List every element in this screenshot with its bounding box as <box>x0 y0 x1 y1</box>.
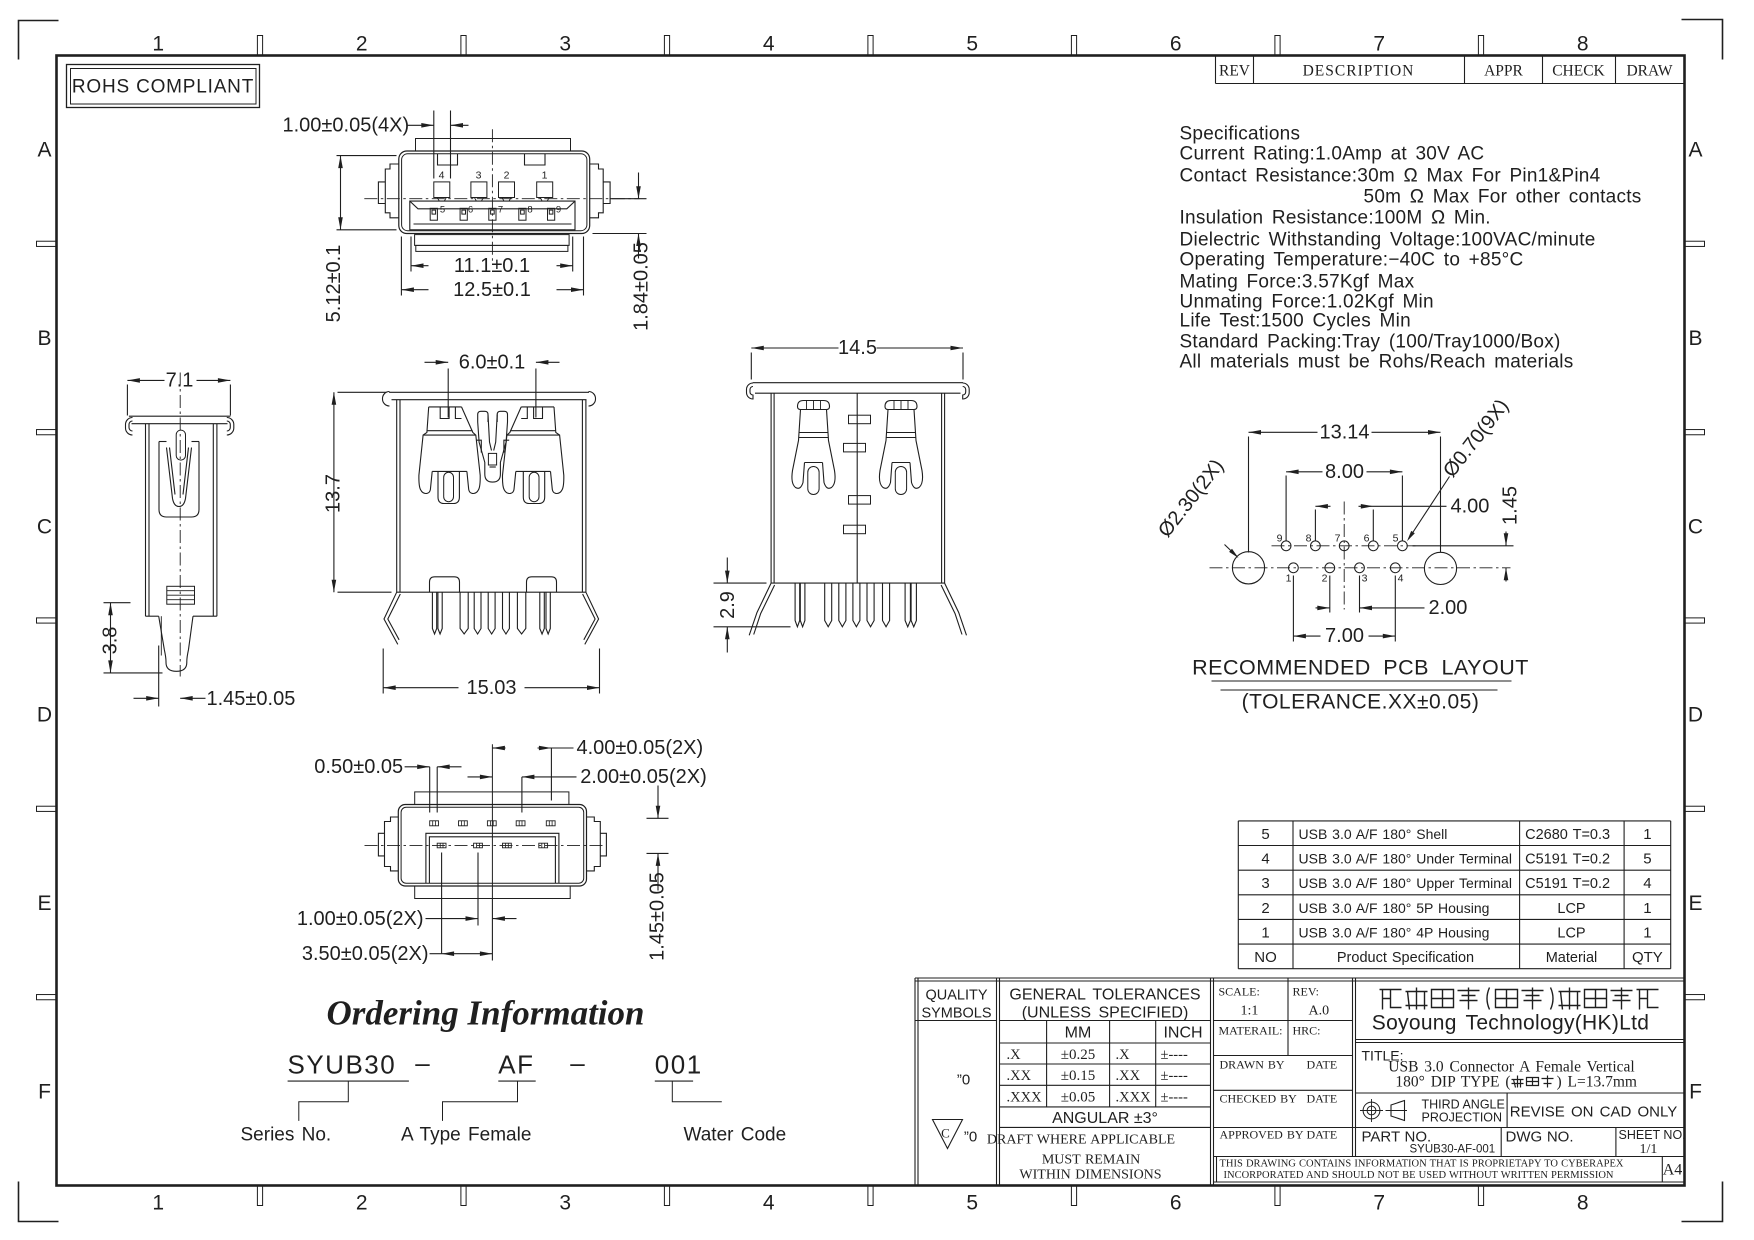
svg-text:6: 6 <box>1170 1192 1182 1215</box>
dimension 1.45±0.05 bottom view <box>647 817 669 819</box>
svg-text:Specifications: Specifications <box>1180 124 1301 145</box>
svg-text:1.45: 1.45 <box>1500 486 1522 525</box>
svg-text:USB 3.0 A/F 180° Upper Termina: USB 3.0 A/F 180° Upper Terminal <box>1299 875 1512 891</box>
svg-text:”0: ”0 <box>964 1129 977 1146</box>
svg-text:4: 4 <box>1398 573 1404 585</box>
dimension 5.12±0.1 <box>337 155 397 157</box>
dimension 3.8 <box>104 602 131 604</box>
svg-text:±0.25: ±0.25 <box>1061 1047 1095 1063</box>
svg-text:8: 8 <box>1306 533 1312 545</box>
svg-text:3: 3 <box>1261 875 1269 892</box>
svg-text:7: 7 <box>1373 1192 1385 1215</box>
svg-text:1:1: 1:1 <box>1241 1004 1259 1019</box>
svg-text:LCP: LCP <box>1557 901 1585 917</box>
top view horizontal centerline <box>364 198 639 200</box>
back view right clamp <box>879 401 922 489</box>
svg-text:A: A <box>1688 139 1702 162</box>
scale rev cells <box>1287 978 1289 1056</box>
bottom view horizontal centerline <box>365 844 605 846</box>
svg-text:C5191 T=0.2: C5191 T=0.2 <box>1525 852 1610 868</box>
svg-text:6: 6 <box>1364 533 1370 545</box>
svg-text:8: 8 <box>1577 33 1589 56</box>
projection symbol cone <box>1391 1101 1405 1121</box>
svg-text:.X: .X <box>1116 1047 1131 1063</box>
svg-text:1.00±0.05(2X): 1.00±0.05(2X) <box>297 908 424 930</box>
svg-text:THIRD ANGLE: THIRD ANGLE <box>1422 1098 1505 1112</box>
svg-text:8: 8 <box>1577 1192 1589 1215</box>
svg-text:CHECK: CHECK <box>1552 63 1605 80</box>
back view body <box>770 393 772 583</box>
svg-text:1: 1 <box>1286 573 1292 585</box>
svg-text:7: 7 <box>1373 33 1385 56</box>
svg-text:C: C <box>1688 515 1703 538</box>
dimension 8.00 <box>1285 476 1287 541</box>
svg-text:E: E <box>1688 892 1702 915</box>
svg-text:6: 6 <box>1170 33 1182 56</box>
svg-text:QTY: QTY <box>1632 949 1663 966</box>
dimension 6.0±0.1 <box>425 361 449 363</box>
svg-text:Soyoung Technology(HK)Ltd: Soyoung Technology(HK)Ltd <box>1372 1012 1649 1035</box>
svg-text:1.45±0.05: 1.45±0.05 <box>647 872 669 961</box>
quality symbols cell <box>915 1020 997 1022</box>
bottom view center pads <box>437 843 446 848</box>
svg-text:PROJECTION: PROJECTION <box>1422 1111 1503 1125</box>
svg-text:DATE: DATE <box>1307 1128 1338 1142</box>
svg-text:±----: ±---- <box>1161 1047 1188 1063</box>
svg-text:All materials must be Rohs: All materials must be Rohs/Reach materia… <box>1180 352 1574 373</box>
svg-text:Dielectric Withstanding Volt: Dielectric Withstanding Voltage:100VAC/m… <box>1180 230 1596 251</box>
svg-text:SYUB30-AF-001: SYUB30-AF-001 <box>1410 1144 1496 1156</box>
front view bottom brackets <box>430 577 460 592</box>
svg-text:1: 1 <box>152 33 164 56</box>
dimension 1.45 pcb <box>1413 545 1514 547</box>
side view latch cutout <box>159 442 199 518</box>
tolerance table grid <box>1000 1020 1211 1022</box>
svg-text:Mating Force:3.57Kgf Max: Mating Force:3.57Kgf Max <box>1180 272 1415 293</box>
dimension 7.00 pcb <box>1292 576 1294 642</box>
svg-text:11.1±0.1: 11.1±0.1 <box>454 255 530 277</box>
bottom view inner cavity <box>426 833 559 883</box>
svg-text:APPR: APPR <box>1484 63 1523 80</box>
svg-text:Material: Material <box>1546 950 1598 966</box>
svg-text:Unmating Force:1.02Kgf Min: Unmating Force:1.02Kgf Min <box>1180 292 1434 313</box>
dimension 1.45±0.05 side <box>158 646 160 707</box>
dimension 12.5±0.1 <box>400 237 402 296</box>
svg-text:2: 2 <box>504 170 510 182</box>
side view hatch plate <box>167 586 195 604</box>
svg-text:ROHS COMPLIANT: ROHS COMPLIANT <box>72 77 254 98</box>
sheet size A4 cell <box>1661 1157 1663 1183</box>
svg-text:0.50±0.05: 0.50±0.05 <box>314 756 403 778</box>
svg-text:001: 001 <box>655 1050 703 1080</box>
svg-text:8: 8 <box>527 205 532 216</box>
svg-text:.XXX: .XXX <box>1007 1090 1043 1106</box>
svg-text:9: 9 <box>1277 533 1283 545</box>
back view right mounting leg <box>941 583 966 635</box>
title cell <box>1356 1092 1685 1094</box>
projection symbol circle <box>1363 1102 1380 1119</box>
back view center seam <box>856 393 858 583</box>
svg-text:Standard Packing:Tray (100/T: Standard Packing:Tray (100/Tray1000/Box) <box>1180 332 1561 353</box>
svg-text:7.1: 7.1 <box>166 370 194 392</box>
svg-text:2.00: 2.00 <box>1429 597 1468 619</box>
svg-text:DATE: DATE <box>1307 1058 1338 1072</box>
svg-text:1.45±0.05: 1.45±0.05 <box>207 688 296 710</box>
svg-text:5.12±0.1: 5.12±0.1 <box>323 245 345 323</box>
svg-text:4: 4 <box>1261 851 1269 868</box>
ordering leader a type female <box>443 1081 518 1121</box>
svg-text:C2680 T=0.3: C2680 T=0.3 <box>1525 827 1610 843</box>
front view center latch <box>478 411 488 422</box>
bottom view upper pads <box>430 821 439 826</box>
svg-text:USB 3.0 A/F 180° 5P Housing: USB 3.0 A/F 180° 5P Housing <box>1299 900 1490 916</box>
svg-text:REV: REV <box>1219 63 1251 80</box>
svg-text:Series No.: Series No. <box>241 1125 332 1146</box>
svg-text:4: 4 <box>763 33 775 56</box>
dimension 7.1 <box>126 385 128 416</box>
ordering leader series no <box>299 1081 349 1121</box>
top view lower cavity <box>410 201 575 230</box>
svg-text:DATE: DATE <box>1307 1092 1338 1106</box>
PCB layout mounting hole left Ø2.30 <box>1232 552 1264 584</box>
svg-text:2.9: 2.9 <box>717 591 739 619</box>
svg-text:3: 3 <box>476 170 482 182</box>
dimension 1.84±0.05 <box>610 198 647 200</box>
revision header table <box>1215 56 1217 84</box>
svg-text:SHEET NO.: SHEET NO. <box>1619 1128 1686 1142</box>
PCB layout centerlines <box>1210 567 1511 569</box>
ROHS COMPLIANT stamp box <box>67 65 260 108</box>
svg-text:DRAW: DRAW <box>1626 63 1672 80</box>
PCB layout pin holes 9-5 row <box>1281 541 1291 551</box>
svg-text:Life Test:1500 Cycles Min: Life Test:1500 Cycles Min <box>1180 311 1411 332</box>
svg-text:–: – <box>570 1048 585 1078</box>
svg-text:Insulation Resistance:100M Ω: Insulation Resistance:100M Ω Min. <box>1180 208 1491 229</box>
svg-text:9: 9 <box>556 205 561 216</box>
dimension 4.00±0.05(2X) <box>492 747 505 749</box>
svg-text:ANGULAR ±3°: ANGULAR ±3° <box>1052 1110 1158 1127</box>
svg-text:MUST REMAIN: MUST REMAIN <box>1042 1153 1140 1168</box>
svg-text:8.00: 8.00 <box>1325 461 1364 483</box>
svg-text:GENERAL TOLERANCES: GENERAL TOLERANCES <box>1009 987 1200 1004</box>
svg-text:Ø0.70(9X): Ø0.70(9X) <box>1439 395 1513 481</box>
third angle projection row <box>1506 1093 1508 1128</box>
svg-text:3.50±0.05(2X): 3.50±0.05(2X) <box>302 943 429 965</box>
svg-text:QUALITY: QUALITY <box>925 988 987 1004</box>
front view left mounting leg <box>384 592 400 644</box>
svg-text:±0.05: ±0.05 <box>1061 1090 1095 1106</box>
svg-text:A4: A4 <box>1663 1162 1683 1179</box>
side view body <box>145 424 147 617</box>
svg-text:MATERAIL:: MATERAIL: <box>1219 1024 1283 1038</box>
dimension 2.00 pcb <box>1329 576 1331 613</box>
bill of materials table <box>1237 821 1239 969</box>
svg-text:USB 3.0 A/F 180° 4P Housing: USB 3.0 A/F 180° 4P Housing <box>1299 924 1490 940</box>
side view flange <box>129 415 231 417</box>
svg-text:2: 2 <box>1322 573 1328 585</box>
svg-text:Operating Temperature:−40C t: Operating Temperature:−40C to +85°C <box>1180 250 1524 271</box>
svg-text:4.00±0.05(2X): 4.00±0.05(2X) <box>577 737 704 759</box>
svg-text:DRAWN BY: DRAWN BY <box>1220 1058 1285 1072</box>
dimension 15.03 <box>382 649 384 694</box>
svg-text:±----: ±---- <box>1161 1068 1188 1084</box>
top view inner top notches <box>438 154 458 165</box>
svg-text:±0.15: ±0.15 <box>1061 1068 1095 1084</box>
back view solder pins <box>795 583 800 627</box>
svg-text:USB 3.0 A/F 180° Under Termina: USB 3.0 A/F 180° Under Terminal <box>1299 851 1512 867</box>
svg-text:6.0±0.1: 6.0±0.1 <box>459 352 526 374</box>
svg-text:14.5: 14.5 <box>838 337 877 359</box>
proprietary note row <box>1214 1156 1685 1158</box>
svg-text:A: A <box>37 139 51 162</box>
svg-text:) L=13.7mm: ) L=13.7mm <box>1557 1074 1637 1091</box>
svg-text:1: 1 <box>1643 900 1651 917</box>
svg-text:7: 7 <box>498 205 503 216</box>
svg-text:MM: MM <box>1065 1025 1092 1042</box>
svg-text:Water Code: Water Code <box>684 1125 787 1146</box>
top view contact feet <box>437 198 439 202</box>
svg-text:7.00: 7.00 <box>1325 625 1364 647</box>
svg-text:(TOLERANCE.XX±0.05): (TOLERANCE.XX±0.05) <box>1242 691 1480 714</box>
svg-text:”0: ”0 <box>957 1072 970 1089</box>
svg-text:1.84±0.05: 1.84±0.05 <box>631 242 653 331</box>
svg-text:5: 5 <box>1393 533 1399 545</box>
svg-text:CHECKED BY: CHECKED BY <box>1220 1092 1298 1106</box>
top view right ear <box>590 164 604 218</box>
zone ticks top/bottom <box>257 36 262 56</box>
top view vertical centerline <box>491 129 493 263</box>
svg-text:2: 2 <box>356 1192 368 1215</box>
title block outer borders <box>915 977 1685 979</box>
part no row <box>1214 1127 1685 1129</box>
svg-text:3.8: 3.8 <box>100 627 122 655</box>
svg-text:5: 5 <box>1261 826 1269 843</box>
bottom view body outline <box>398 805 586 887</box>
side view centerline <box>179 373 181 677</box>
svg-text:D: D <box>1688 704 1703 727</box>
company name box <box>1356 1039 1685 1041</box>
PCB layout pin holes 1-4 row <box>1289 563 1299 573</box>
front view solder pins <box>432 592 436 634</box>
svg-text:1: 1 <box>1643 924 1651 941</box>
bottom view right ear <box>587 817 601 871</box>
back view flange <box>753 382 963 384</box>
svg-text:5: 5 <box>440 205 445 216</box>
svg-text:NO: NO <box>1254 949 1277 966</box>
top view shell outline <box>399 151 590 234</box>
svg-text:4: 4 <box>1643 875 1651 892</box>
front view flange <box>389 391 589 393</box>
svg-text:1.00±0.05(4X): 1.00±0.05(4X) <box>283 115 410 137</box>
top view left ear <box>385 164 399 218</box>
svg-text:3: 3 <box>559 1192 571 1215</box>
svg-text:±----: ±---- <box>1161 1090 1188 1106</box>
svg-text:.XX: .XX <box>1116 1068 1141 1084</box>
dimension 2.00±0.05(2X) <box>468 776 493 778</box>
zone ticks left/right <box>37 241 57 246</box>
top view contacts 1-4 <box>434 182 450 198</box>
svg-text:USB 3.0 A/F 180° Shell: USB 3.0 A/F 180° Shell <box>1299 826 1448 842</box>
svg-text:3: 3 <box>1362 573 1368 585</box>
svg-text:3: 3 <box>559 33 571 56</box>
svg-text:C: C <box>37 515 52 538</box>
svg-text:.X: .X <box>1007 1047 1022 1063</box>
svg-text:.XXX: .XXX <box>1116 1090 1152 1106</box>
svg-text:SYUB30: SYUB30 <box>288 1050 397 1080</box>
svg-text:A Type Female: A Type Female <box>401 1125 531 1146</box>
svg-text:5: 5 <box>1643 851 1651 868</box>
svg-text:1: 1 <box>1261 924 1269 941</box>
top view contacts 5-9 <box>430 208 437 220</box>
svg-text:5: 5 <box>966 33 978 56</box>
svg-text:REV:: REV: <box>1293 985 1319 999</box>
svg-text:15.03: 15.03 <box>466 677 516 699</box>
svg-text:Current Rating:1.0Amp at 30: Current Rating:1.0Amp at 30V AC <box>1180 144 1485 165</box>
svg-text:F: F <box>1689 1080 1702 1103</box>
dimension 11.1±0.1 <box>410 237 412 272</box>
side view latch slot <box>176 430 185 460</box>
svg-text:INCORPORATED AND SHOULD NOT BE: INCORPORATED AND SHOULD NOT BE USED WITH… <box>1224 1170 1614 1181</box>
bottom view bottom tab <box>415 886 571 899</box>
svg-text:C5191 T=0.2: C5191 T=0.2 <box>1525 876 1610 892</box>
svg-text:6: 6 <box>468 205 473 216</box>
dimension 14.5 <box>750 353 752 380</box>
svg-text:1: 1 <box>542 170 548 182</box>
svg-text:D: D <box>37 704 52 727</box>
svg-text:.XX: .XX <box>1007 1068 1032 1084</box>
svg-text:HRC:: HRC: <box>1293 1024 1321 1038</box>
svg-text:1: 1 <box>152 1192 164 1215</box>
company CJK name <box>1380 988 1659 1010</box>
svg-text:SCALE:: SCALE: <box>1219 985 1260 999</box>
svg-text:4: 4 <box>763 1192 775 1215</box>
svg-text:A.0: A.0 <box>1309 1004 1330 1019</box>
svg-text:F: F <box>38 1080 51 1103</box>
front view left clamp contact <box>419 407 432 494</box>
svg-text:WITHIN DIMENSIONS: WITHIN DIMENSIONS <box>1019 1168 1161 1183</box>
svg-text:Ordering Information: Ordering Information <box>327 994 645 1033</box>
svg-text:DWG NO.: DWG NO. <box>1506 1129 1574 1146</box>
bottom view top tab <box>415 792 569 805</box>
svg-text:13.7: 13.7 <box>323 474 345 513</box>
dimension 2.9 <box>714 582 767 584</box>
svg-text:APPROVED BY: APPROVED BY <box>1220 1128 1304 1142</box>
svg-text:1/1: 1/1 <box>1640 1142 1658 1157</box>
svg-text:5: 5 <box>966 1192 978 1215</box>
svg-text:B: B <box>37 327 51 350</box>
svg-text:2.00±0.05(2X): 2.00±0.05(2X) <box>580 766 707 788</box>
svg-text:13.14: 13.14 <box>1319 422 1369 444</box>
svg-text:SYMBOLS: SYMBOLS <box>921 1006 991 1022</box>
dimension 4.00 <box>1314 510 1316 541</box>
svg-text:1: 1 <box>1643 826 1651 843</box>
svg-text:2: 2 <box>356 33 368 56</box>
ordering leader water code <box>672 1081 722 1102</box>
svg-text:AF: AF <box>498 1050 534 1080</box>
side view bottom pin <box>159 616 193 671</box>
back view left clamp <box>792 401 835 489</box>
svg-text:50m Ω Max For other contact: 50m Ω Max For other contacts <box>1364 187 1642 208</box>
svg-text:INCH: INCH <box>1163 1025 1202 1042</box>
svg-text:E: E <box>37 892 51 915</box>
svg-text:–: – <box>415 1048 430 1078</box>
svg-text:12.5±0.1: 12.5±0.1 <box>453 279 531 301</box>
svg-text:Contact Resistance:30m Ω Max: Contact Resistance:30m Ω Max For Pin1&Pi… <box>1180 166 1601 187</box>
dimension 13.14 <box>1248 437 1250 553</box>
svg-text:RECOMMENDED PCB LAYOUT: RECOMMENDED PCB LAYOUT <box>1192 656 1529 680</box>
bottom view left ear <box>385 817 399 871</box>
top view bottom tabs <box>415 235 569 246</box>
svg-text:LCP: LCP <box>1557 925 1585 941</box>
svg-text:Ø2.30(2X): Ø2.30(2X) <box>1154 455 1228 541</box>
svg-text:7: 7 <box>1335 533 1341 545</box>
front view right clamp contact <box>551 407 564 494</box>
svg-text:4: 4 <box>439 170 445 182</box>
svg-text:C: C <box>941 1126 950 1141</box>
svg-text:DESCRIPTION: DESCRIPTION <box>1303 63 1415 80</box>
dimension 13.7 <box>338 391 387 393</box>
quality triangle symbol <box>933 1120 963 1149</box>
bottom view vertical axis line <box>491 744 493 898</box>
svg-text:180° DIP TYPE (: 180° DIP TYPE ( <box>1395 1074 1510 1091</box>
svg-text:B: B <box>1688 327 1702 350</box>
svg-text:4.00: 4.00 <box>1451 496 1490 518</box>
svg-text:REVISE ON CAD ONLY: REVISE ON CAD ONLY <box>1510 1104 1677 1121</box>
svg-text:2: 2 <box>1261 900 1269 917</box>
PCB layout mounting hole right Ø2.30 <box>1424 552 1456 584</box>
drawn checked approved cells <box>1214 1089 1353 1091</box>
svg-text:THIS DRAWING CONTAINS INFORMAT: THIS DRAWING CONTAINS INFORMATION THAT I… <box>1220 1159 1624 1170</box>
front view right mounting leg <box>583 592 599 644</box>
back view left mounting leg <box>749 583 774 635</box>
front view body sides <box>396 400 398 593</box>
svg-text:(UNLESS SPECIFIED): (UNLESS SPECIFIED) <box>1022 1005 1189 1022</box>
svg-text:Product Specification: Product Specification <box>1337 950 1474 966</box>
svg-text:DRAFT WHERE APPLICABLE: DRAFT WHERE APPLICABLE <box>987 1133 1175 1148</box>
top view shell tab <box>416 139 571 152</box>
